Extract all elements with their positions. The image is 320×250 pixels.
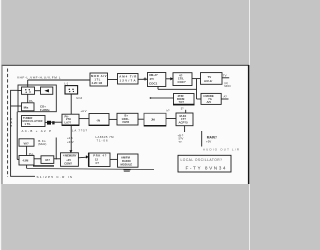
pll box — [19, 156, 34, 166]
tuner big box — [18, 85, 56, 112]
rf amp box — [41, 87, 53, 94]
box M7 — [89, 153, 111, 167]
white scan edge right — [249, 0, 250, 250]
svg-text:1 T/L: 1 T/L — [25, 122, 32, 126]
M4 bottom thick — [144, 125, 166, 127]
T5 output wire — [222, 77, 229, 79]
svg-text:PLL: PLL — [29, 152, 34, 156]
svg-text:LOCAL OSCILLATOR?: LOCAL OSCILLATOR? — [181, 158, 223, 162]
svg-text:+33V: +33V — [67, 140, 74, 144]
mixer dot junction — [150, 97, 152, 99]
IF output wire — [51, 121, 62, 123]
svg-text:L-1: L-1 — [64, 82, 68, 86]
left IF bus wire — [16, 112, 18, 160]
T3 bottom stub — [157, 87, 159, 90]
svg-text:4-2C 1/2: 4-2C 1/2 — [92, 81, 103, 85]
wire M3 out — [138, 118, 144, 120]
svg-text:A/V-Jr: A/V-Jr — [204, 79, 213, 83]
U1 box — [65, 86, 78, 94]
xtal box B2 — [41, 156, 54, 164]
gray scan background — [0, 0, 250, 250]
svg-text:4T/: 4T/ — [150, 77, 154, 81]
vertical wire U1 to M1 to memory — [70, 94, 72, 114]
wire osc to amp — [35, 90, 41, 92]
wire T3 branch right — [158, 88, 197, 90]
wire T2 to T3 — [138, 78, 148, 80]
svg-text:COM?: COM? — [64, 162, 72, 166]
svg-text:AM/FM: AM/FM — [121, 155, 131, 159]
branch wire up — [55, 138, 57, 160]
box M4 — [144, 113, 166, 126]
branch vertical V3 — [196, 79, 198, 99]
svg-text:Jltl: Jltl — [151, 117, 155, 121]
wire M7 to M8 — [110, 158, 118, 160]
wire to mixer left — [11, 105, 22, 107]
svg-text:√N: √N — [97, 118, 101, 122]
saw filter box — [22, 116, 46, 127]
wire into T6 — [151, 97, 174, 99]
M1 bottom thick — [62, 124, 79, 126]
T6 bottom thick — [173, 104, 195, 106]
M7 left thick — [88, 153, 90, 167]
svg-text:+A V: +A V — [81, 109, 87, 113]
svg-text:ACP?5: ACP?5 — [179, 120, 189, 124]
U1 dots — [69, 89, 74, 93]
svg-text:TV: TV — [223, 73, 227, 77]
svg-text:A/V: A/V — [207, 100, 212, 104]
junction cross — [144, 78, 147, 81]
box M3 — [117, 113, 138, 125]
box M5 — [176, 113, 193, 126]
CN bold mark under M8 — [123, 169, 130, 170]
thick bus segment under xtal box — [33, 165, 54, 167]
wire T4 to T5 — [192, 78, 201, 80]
box T1 — [90, 73, 108, 86]
radio module box M8 — [118, 154, 139, 167]
oscillator box — [22, 87, 35, 94]
page right border — [248, 65, 250, 184]
box M2 — [89, 114, 109, 126]
svg-text:T: T — [10, 124, 12, 128]
svg-text:(MHz): (MHz) — [38, 142, 46, 146]
dashed tuner section border — [7, 69, 9, 178]
svg-text:PA.: PA. — [29, 99, 34, 103]
svg-text:4 MEMORY: 4 MEMORY — [63, 154, 77, 158]
wire M1 out — [79, 118, 89, 120]
svg-text:Mix: Mix — [24, 105, 29, 109]
arrow head into M6 top — [69, 150, 72, 153]
wire pll down — [26, 165, 28, 168]
svg-text:MON: MON — [224, 84, 230, 88]
box T4 — [173, 73, 192, 86]
svg-text:FH55: FH55 — [123, 120, 130, 124]
svg-text:RADIO: RADIO — [122, 159, 131, 163]
svg-text:PRK 4?: PRK 4? — [93, 154, 106, 158]
box T5 — [201, 73, 223, 85]
lower right stub wire — [201, 131, 203, 147]
amp module box M1 — [62, 114, 79, 125]
antenna wire — [11, 90, 35, 176]
svg-text:A?: A? — [224, 94, 228, 98]
svg-text:COC?: COC? — [178, 80, 186, 84]
osc dots — [25, 89, 31, 93]
arrow wire T3 to T4 — [166, 78, 171, 80]
long bottom bus wire — [27, 168, 154, 169]
T7 output wire — [221, 98, 228, 100]
svg-text:F+RMu: F+RMu — [40, 108, 50, 112]
svg-text:+5V: +5V — [206, 139, 211, 143]
svg-text:LA 7?5?: LA 7?5? — [72, 128, 87, 132]
svg-text:MODULE: MODULE — [121, 163, 133, 167]
svg-text:71-06: 71-06 — [97, 138, 108, 142]
box T6 — [174, 94, 195, 105]
M5 stub below — [184, 126, 186, 132]
connector mark — [52, 121, 54, 124]
white page — [2, 66, 249, 185]
arrow head T3 to T4 — [170, 77, 173, 80]
wire into osc box — [18, 90, 22, 92]
wire M4 to M5 — [166, 118, 176, 120]
page top border — [2, 65, 249, 66]
arrow head into M7 — [86, 155, 89, 158]
svg-text:4.5M: 4.5M — [23, 159, 29, 163]
svg-text:LA??: LA?? — [65, 120, 72, 124]
svg-text:?O?: ?O? — [179, 100, 185, 104]
mixer box — [22, 103, 35, 111]
box T3 — [148, 73, 166, 87]
svg-text:AC-B + A2 P: AC-B + A2 P — [22, 129, 52, 133]
vco box — [19, 139, 34, 146]
svg-text:VA?: VA? — [45, 158, 50, 162]
svg-text:VA?: VA? — [24, 141, 30, 145]
M2 bottom thick — [89, 124, 109, 126]
box T2 — [118, 74, 139, 85]
box T7 — [201, 93, 221, 104]
wire osc to mixer — [27, 94, 29, 103]
svg-text:hc=d: hc=d — [76, 96, 82, 100]
wire saw to connector — [45, 121, 47, 123]
wire pll left — [17, 158, 19, 160]
svg-text:12V/7A: 12V/7A — [120, 78, 136, 82]
IF connector black square — [47, 121, 51, 125]
svg-text:C?: C? — [96, 161, 100, 165]
page left border — [1, 65, 4, 184]
svg-text:??·: ??· — [179, 140, 183, 144]
stub into tuner box — [27, 80, 29, 87]
memory box M6 — [61, 153, 79, 167]
svg-text:COC1: COC1 — [149, 82, 158, 86]
wire M2 out — [109, 118, 117, 120]
main signal wire top — [28, 79, 90, 81]
svg-text:VHF-L,VHF-H,U/V,FM L: VHF-L,VHF-H,U/V,FM L — [17, 76, 61, 80]
wire vco to pll — [26, 146, 28, 155]
M5 stub above — [185, 110, 187, 113]
caption box — [178, 155, 231, 172]
white scan edge left — [0, 0, 1, 250]
wire xtal box to memory — [54, 158, 61, 160]
wire M6 in arrowed — [78, 156, 86, 159]
svg-text:+2V: +2V — [66, 158, 71, 162]
wire pll to xtal box — [34, 158, 41, 160]
amp triangle in rf amp box — [44, 89, 49, 92]
wire V3 to T7 — [197, 98, 202, 100]
wire T1 to T2 — [108, 79, 118, 81]
